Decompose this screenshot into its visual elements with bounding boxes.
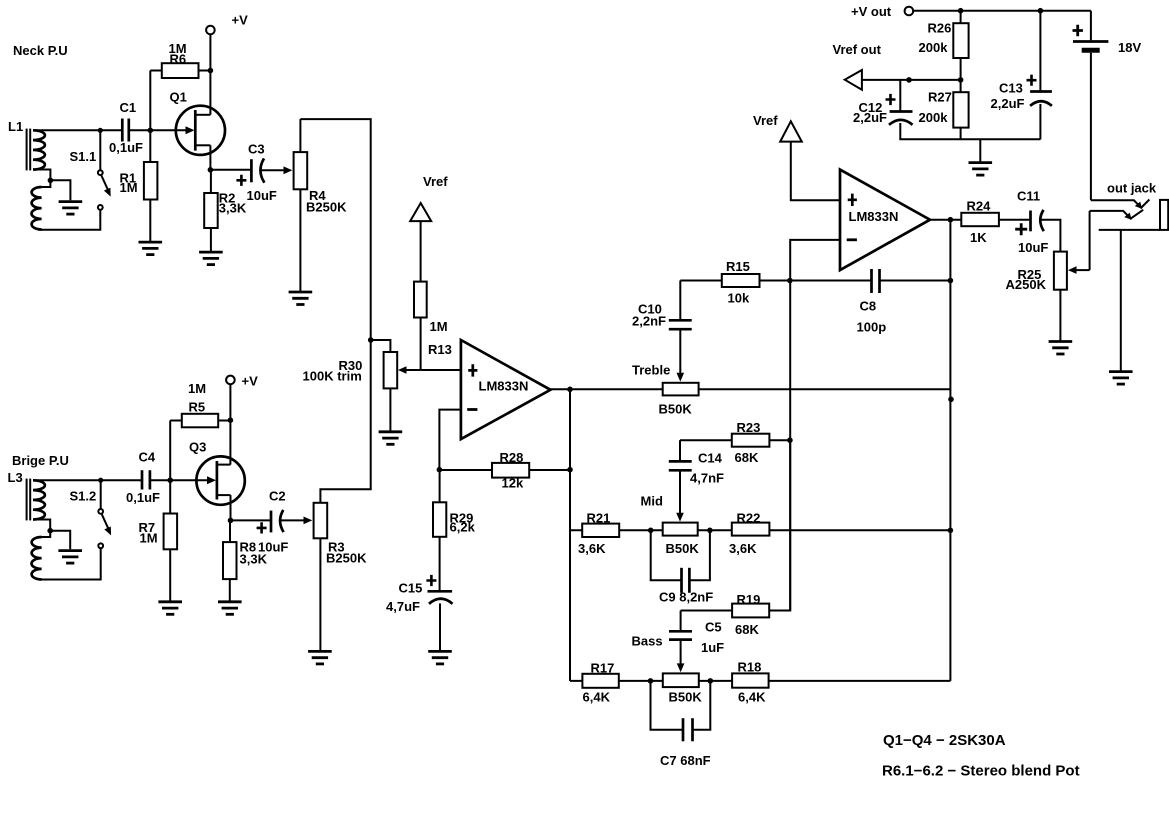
svg-text:LM833N: LM833N: [849, 209, 899, 224]
resistor R1: [120, 130, 158, 241]
jack sleeve and body: [1099, 200, 1169, 230]
svg-text:B50K: B50K: [669, 690, 703, 705]
wire op2 output: [930, 219, 961, 221]
capacitor C8 100p: [790, 269, 951, 335]
transistor Q1 (JFET 2SK30A): [170, 90, 225, 170]
svg-text:10k: 10k: [728, 291, 750, 306]
svg-text:Treble: Treble: [632, 363, 670, 378]
svg-text:1K: 1K: [970, 230, 987, 245]
inductor L1 (neck pickup): [8, 119, 45, 230]
wire C5 to bass wiper arrow: [680, 640, 682, 664]
wire Vref to op2 plus input: [791, 142, 840, 201]
+V out terminal: [851, 4, 913, 19]
jack ring contact (from battery): [1091, 200, 1150, 209]
svg-text:Mid: Mid: [641, 494, 663, 509]
svg-text:12k: 12k: [502, 476, 524, 491]
svg-text:C8: C8: [860, 299, 877, 314]
svg-text:C4: C4: [139, 450, 156, 465]
svg-text:1uF: 1uF: [701, 640, 724, 655]
svg-text:R28: R28: [500, 450, 524, 465]
wire +V to Q1 drain: [209, 34, 211, 115]
wire tap to ground: [50, 180, 70, 200]
capacitor C2 (electrolytic 10uF): [231, 489, 289, 555]
svg-text:+V: +V: [242, 374, 259, 389]
resistor R13 1M: [414, 221, 452, 370]
node op1 output: [567, 387, 573, 393]
svg-text:Q3: Q3: [189, 440, 206, 455]
capacitor C4: [126, 450, 160, 506]
trimmer R30 100K: [303, 340, 421, 431]
capacitor C10 2,2nF: [632, 302, 692, 330]
svg-text:R23: R23: [737, 420, 761, 435]
node C8 right / output bus: [948, 278, 954, 284]
ground (supply): [969, 163, 993, 176]
wire treble line: [551, 388, 951, 390]
ground (R2): [199, 252, 223, 265]
wire tap2 to ground: [50, 531, 70, 550]
node switch top: [98, 128, 103, 133]
node mid line / output bus: [948, 528, 954, 534]
node mid pot left: [648, 528, 654, 534]
ground (pickup L3): [58, 551, 82, 564]
wire C2 to R3 wiper: [281, 519, 305, 521]
inductor L3 (bridge pickup): [8, 470, 45, 580]
node treble line / output bus (offset dot): [948, 397, 954, 403]
svg-text:68K: 68K: [735, 622, 759, 637]
svg-text:S1.1: S1.1: [70, 149, 97, 164]
resistor R8: [223, 520, 268, 601]
wire C14 to mid wiper arrow: [679, 470, 681, 513]
+V terminal (channel 1): [206, 13, 248, 35]
svg-text:B250K: B250K: [326, 551, 367, 566]
ground (R1): [139, 242, 163, 255]
svg-text:C3: C3: [248, 142, 265, 157]
resistor R15 10k: [680, 259, 790, 306]
svg-text:3,6K: 3,6K: [578, 541, 606, 556]
switch S1.2: [70, 480, 112, 548]
wire Vref out line: [862, 79, 961, 81]
wire op1 output bus: [569, 389, 571, 681]
svg-text:B50K: B50K: [666, 541, 700, 556]
svg-text:R21: R21: [587, 511, 611, 526]
wire +V to Q3 drain: [229, 384, 231, 464]
resistor R27 200k: [919, 80, 969, 139]
svg-text:10uF: 10uF: [258, 540, 288, 555]
svg-text:Brige P.U: Brige P.U: [12, 453, 69, 468]
svg-text:1M: 1M: [188, 381, 206, 396]
node op1 feedback left: [437, 467, 443, 473]
wire treble wiper / C10: [679, 281, 681, 321]
wire C1 to gate node: [129, 129, 151, 131]
svg-text:R17: R17: [591, 661, 615, 676]
node op2 output: [948, 217, 954, 223]
resistor R7: [139, 480, 178, 601]
potentiometer R3: [314, 503, 367, 651]
resistor R26 200k: [919, 11, 969, 80]
resistor R24 1K: [961, 199, 1030, 246]
capacitor C3 (electrolytic 10uF): [236, 142, 277, 204]
wire +V rail: [913, 10, 1091, 12]
svg-text:B50K: B50K: [659, 402, 693, 417]
svg-text:10uF: 10uF: [1018, 240, 1048, 255]
node pickup tap: [48, 178, 54, 184]
svg-text:Vref out: Vref out: [833, 42, 882, 57]
ground (R4): [289, 292, 313, 305]
capacitor C5 1uF: [669, 620, 724, 656]
resistor R28 12k: [439, 450, 570, 491]
svg-text:1M: 1M: [430, 319, 448, 334]
svg-text:L1: L1: [8, 119, 23, 134]
wire output bus: [949, 220, 951, 681]
resistor R19 68K: [681, 440, 791, 637]
svg-text:Q1−Q4 − 2SK30A: Q1−Q4 − 2SK30A: [883, 732, 1006, 749]
ground (R30): [379, 432, 403, 445]
potentiometer R4: [294, 119, 347, 291]
capacitor C9 8,2nF (mid bypass): [651, 530, 714, 604]
wire C10 to treble wiper arrow: [679, 329, 681, 373]
svg-text:6,4K: 6,4K: [583, 690, 611, 705]
ground (jack): [1109, 372, 1133, 385]
svg-text:LM833N: LM833N: [479, 379, 529, 394]
svg-text:R5: R5: [189, 400, 206, 415]
wire op1 plus input: [421, 369, 461, 371]
svg-text:L3: L3: [8, 470, 23, 485]
capacitor C11 (electrolytic 10uF): [1015, 189, 1048, 256]
wire pickup bottom to switch: [38, 210, 100, 230]
svg-text:2,2nF: 2,2nF: [632, 314, 666, 329]
svg-text:200k: 200k: [919, 110, 949, 125]
svg-text:R22: R22: [737, 511, 761, 526]
svg-text:C1: C1: [120, 100, 137, 115]
svg-text:C15: C15: [399, 581, 423, 596]
node blend bus / R30: [368, 337, 374, 343]
svg-text:100K trim: 100K trim: [303, 369, 362, 384]
svg-text:R24: R24: [967, 199, 992, 214]
node bass pot left: [648, 678, 654, 684]
battery 18V: [1073, 11, 1142, 201]
svg-text:Bass: Bass: [632, 634, 663, 649]
svg-text:4,7nF: 4,7nF: [690, 471, 724, 486]
resistor R22 3,6K: [729, 511, 769, 557]
svg-text:C11: C11: [1017, 189, 1040, 204]
svg-text:+V: +V: [232, 13, 249, 28]
resistor R18 6,4K: [732, 660, 769, 705]
capacitor C7 68nF (bass bypass): [651, 681, 711, 768]
+V terminal (channel 2): [226, 374, 258, 389]
capacitor C13 (electrolytic 2,2uF): [991, 11, 1052, 140]
node feedback bus / R23: [787, 437, 793, 443]
Vref terminal (mixer): [410, 174, 448, 221]
jack tip contact (signal): [1090, 210, 1144, 220]
switch S1.1: [70, 130, 111, 210]
wire bass wiper / C5 stem: [680, 611, 682, 632]
svg-text:out jack: out jack: [1107, 181, 1157, 196]
ground (C15): [428, 651, 452, 664]
wire sleeve to ground: [1120, 230, 1122, 371]
node switch2 top: [98, 478, 103, 483]
resistor R17 6,4K: [582, 661, 618, 705]
resistor R29 6,2k: [433, 470, 476, 592]
svg-text:6,2k: 6,2k: [450, 520, 476, 535]
svg-text:C14: C14: [698, 451, 723, 466]
capacitor C15 (electrolytic 4,7uF): [386, 575, 453, 651]
svg-text:3,3K: 3,3K: [219, 201, 247, 216]
node R26 top: [958, 8, 964, 14]
svg-text:100p: 100p: [857, 320, 887, 335]
ground (R8): [218, 602, 242, 615]
svg-text:200k: 200k: [919, 40, 949, 55]
svg-text:R6: R6: [170, 52, 187, 67]
potentiometer Mid B50K: [641, 494, 700, 557]
svg-text:S1.2: S1.2: [70, 489, 97, 504]
op-amp U1 LM833N: [461, 340, 551, 439]
transistor Q3 (JFET 2SK30A): [189, 440, 245, 521]
svg-text:+V out: +V out: [851, 4, 892, 19]
Vref terminal (op-amp 2): [753, 113, 802, 142]
capacitor C14 4,7nF: [669, 451, 724, 486]
resistor R2: [204, 170, 247, 252]
svg-text:R15: R15: [726, 259, 750, 274]
capacitor C1: [109, 100, 143, 155]
svg-text:C7 68nF: C7 68nF: [660, 753, 711, 768]
Vref out terminal: [833, 42, 882, 90]
wire supply bottom rail: [899, 138, 1040, 140]
potentiometer Bass B50K: [632, 634, 703, 705]
svg-text:1M: 1M: [120, 180, 138, 195]
svg-text:3,6K: 3,6K: [729, 541, 757, 556]
node Q1 source: [208, 167, 214, 173]
wire pickup tap to junction: [33, 170, 50, 188]
svg-text:C9 8,2nF: C9 8,2nF: [659, 590, 713, 605]
potentiometer R25 A250K: [1006, 211, 1090, 341]
wire C3 to R4 wiper: [261, 169, 284, 171]
wire mid line: [570, 529, 950, 531]
svg-text:0,1uF: 0,1uF: [109, 140, 143, 155]
ground (R3): [308, 651, 332, 664]
svg-text:1M: 1M: [140, 531, 158, 546]
wire mid wiper / C14 stem: [679, 440, 681, 461]
capacitor C12 (electrolytic 2,2uF): [853, 80, 913, 139]
resistor R6: [150, 41, 210, 130]
svg-text:Neck P.U: Neck P.U: [13, 43, 68, 58]
node Vref divider: [958, 77, 964, 83]
svg-text:2,2uF: 2,2uF: [853, 110, 887, 125]
svg-text:2,2uF: 2,2uF: [991, 96, 1025, 111]
svg-text:4,7uF: 4,7uF: [386, 599, 420, 614]
node R6 right: [208, 68, 214, 74]
wire C11 to R25 top: [1041, 220, 1061, 252]
wire C4 to gate node: [150, 479, 170, 481]
wire gate node to Q3 gate: [170, 479, 208, 481]
wire pickup2 tap: [33, 520, 50, 538]
resistor R23 68K: [680, 420, 790, 465]
node gate Q3: [167, 477, 173, 483]
svg-text:10uF: 10uF: [247, 188, 277, 203]
wire blend bus: [300, 119, 370, 503]
svg-text:18V: 18V: [1118, 40, 1141, 55]
potentiometer Treble B50K: [632, 363, 699, 417]
wire ground stem (supply): [979, 139, 981, 162]
node R5 right: [228, 417, 234, 423]
node R28 right: [567, 467, 573, 473]
wire bass line: [570, 680, 950, 682]
node feedback bus / R15: [787, 278, 793, 284]
svg-text:R27: R27: [928, 90, 952, 105]
svg-text:6,4K: 6,4K: [738, 690, 766, 705]
wire op1 minus loop: [439, 410, 461, 470]
wire Q1 source to C3: [210, 169, 251, 171]
svg-text:R26: R26: [928, 21, 952, 36]
wire pickup2 bottom to switch: [38, 548, 101, 579]
ground (R25): [1049, 342, 1073, 355]
svg-text:R13: R13: [428, 342, 452, 357]
op-amp U2 LM833N: [840, 170, 930, 271]
node pickup2 tap: [47, 528, 53, 534]
wire pickup2 top line: [33, 479, 142, 481]
svg-text:R18: R18: [738, 660, 762, 675]
node C13 top: [1038, 8, 1044, 14]
svg-text:Q1: Q1: [170, 90, 187, 105]
svg-text:R6.1−6.2 − Stereo blend Pot: R6.1−6.2 − Stereo blend Pot: [882, 763, 1080, 780]
resistor R5: [170, 381, 230, 480]
wire pickup top line: [33, 129, 122, 131]
svg-text:C2: C2: [269, 489, 286, 504]
svg-text:Vref: Vref: [423, 174, 448, 189]
ground (pickup L1): [59, 202, 83, 215]
svg-text:Vref: Vref: [753, 113, 778, 128]
resistor R21 3,6K: [578, 511, 619, 557]
svg-text:C5: C5: [705, 620, 722, 635]
svg-text:R19: R19: [737, 592, 761, 607]
wire gate node to Q1 gate: [150, 129, 187, 131]
svg-text:68K: 68K: [735, 450, 759, 465]
node C12 branch: [906, 77, 912, 83]
svg-text:C13: C13: [999, 81, 1023, 96]
node Q3 source: [228, 518, 234, 524]
svg-text:A250K: A250K: [1006, 277, 1047, 292]
wire op2 minus / feedback bus: [790, 240, 840, 611]
ground (R7): [158, 602, 182, 615]
node bass pot right: [708, 678, 714, 684]
node mid pot right: [707, 528, 713, 534]
node gate Q1: [148, 128, 154, 134]
svg-text:B250K: B250K: [306, 200, 347, 215]
svg-text:0,1uF: 0,1uF: [126, 490, 160, 505]
